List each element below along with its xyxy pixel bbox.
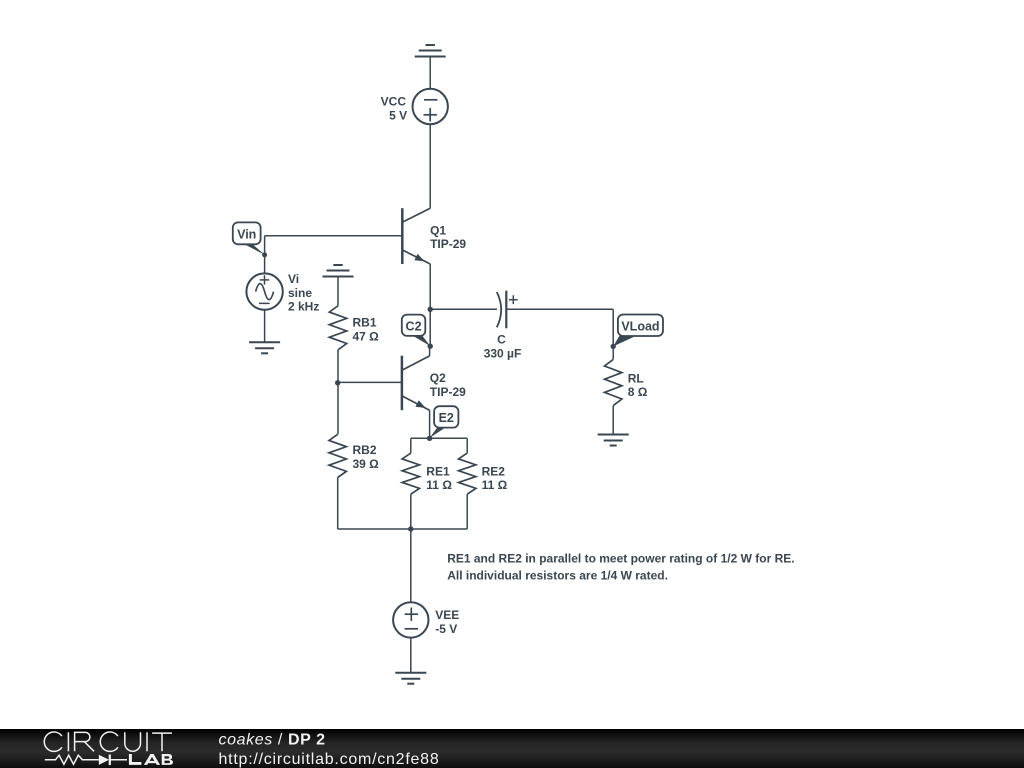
svg-text:VLoad: VLoad <box>621 319 659 333</box>
svg-text:Vin: Vin <box>237 227 256 241</box>
svg-text:11 Ω: 11 Ω <box>482 478 508 492</box>
svg-text:All individual resistors are 1: All individual resistors are 1/4 W rated… <box>447 569 668 583</box>
svg-text:330 µF: 330 µF <box>484 346 522 360</box>
svg-text:TIP-29: TIP-29 <box>430 237 466 251</box>
svg-text:5 V: 5 V <box>389 108 407 122</box>
svg-text:2 kHz: 2 kHz <box>288 299 319 313</box>
svg-text:VEE: VEE <box>435 608 459 622</box>
svg-text:-5 V: -5 V <box>435 622 457 636</box>
svg-text:47 Ω: 47 Ω <box>353 329 380 343</box>
svg-text:E2: E2 <box>439 411 454 425</box>
svg-text:Q1: Q1 <box>430 224 446 238</box>
svg-text:8 Ω: 8 Ω <box>628 385 648 399</box>
svg-text:VCC: VCC <box>381 95 407 109</box>
svg-text:RL: RL <box>628 372 644 386</box>
svg-text:RE1: RE1 <box>426 464 450 478</box>
svg-text:11 Ω: 11 Ω <box>426 478 452 492</box>
svg-text:http://circuitlab.com/cn2fe88: http://circuitlab.com/cn2fe88 <box>219 751 440 768</box>
svg-text:coakes / DP 2: coakes / DP 2 <box>219 732 326 749</box>
svg-text:Q2: Q2 <box>430 371 446 385</box>
svg-text:RB2: RB2 <box>353 443 377 457</box>
svg-text:RE1 and RE2 in parallel to mee: RE1 and RE2 in parallel to meet power ra… <box>447 552 794 566</box>
svg-text:Vi: Vi <box>288 272 299 286</box>
svg-text:39 Ω: 39 Ω <box>353 457 380 471</box>
svg-text:sine: sine <box>288 286 312 300</box>
svg-text:C2: C2 <box>406 319 422 333</box>
svg-text:RE2: RE2 <box>482 464 506 478</box>
svg-text:C: C <box>497 333 506 347</box>
svg-text:TIP-29: TIP-29 <box>430 385 466 399</box>
svg-text:RB1: RB1 <box>353 316 377 330</box>
